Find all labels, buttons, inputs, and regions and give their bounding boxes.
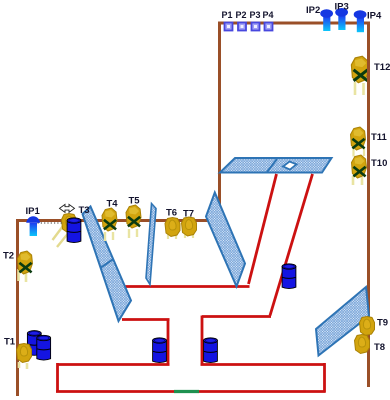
wire: red horizontal pipe y316 xyxy=(202,315,271,318)
valve behind tank T3 (diagonal legs) xyxy=(53,214,77,248)
svg-text:IP3: IP3 xyxy=(335,2,349,13)
label IP4 xyxy=(367,11,382,22)
valve T1 xyxy=(17,344,32,370)
wire: red vertical pipe x202 xyxy=(201,316,204,365)
label T9 xyxy=(377,318,388,329)
label T7 xyxy=(183,209,194,220)
svg-text:T2: T2 xyxy=(3,251,14,262)
valve T10 xyxy=(352,155,367,185)
wire: red bottom loop left edge xyxy=(56,363,59,393)
valve T2 xyxy=(18,251,33,282)
svg-text:T5: T5 xyxy=(129,196,141,207)
svg-text:T3: T3 xyxy=(79,205,90,216)
svg-text:T1: T1 xyxy=(4,337,16,348)
svg-text:P1: P1 xyxy=(222,10,233,20)
svg-text:IP1: IP1 xyxy=(26,206,41,217)
wire: red bottom loop top edge left xyxy=(57,363,170,366)
screen conveyor S1 (top, with diamond) xyxy=(220,158,332,173)
screen conveyor S2 (big left diagonal band) xyxy=(83,207,132,322)
label P3 xyxy=(250,10,261,20)
wire: red vertical pipe x168 xyxy=(167,319,170,365)
wire: brown left vertical pipe xyxy=(16,219,19,396)
wire: red horizontal pipe y286 xyxy=(124,285,250,288)
label P2 xyxy=(236,10,247,20)
wire: red bottom loop top edge right xyxy=(201,363,325,366)
svg-text:P3: P3 xyxy=(250,10,261,20)
wire: green flow segment on bottom pipe xyxy=(174,390,199,393)
wire: brown top header pipe xyxy=(220,22,369,25)
svg-text:T7: T7 xyxy=(183,209,194,220)
label T4 xyxy=(107,199,119,210)
label T5 xyxy=(129,196,141,207)
barrel B6 (on right diagonal) xyxy=(282,264,296,289)
screen conveyor S5 (bottom right band) xyxy=(316,287,369,356)
indicator P3 xyxy=(252,23,260,31)
svg-text:T4: T4 xyxy=(107,199,119,210)
barrel B4 (on bottom loop) xyxy=(153,338,167,363)
indicator P2 xyxy=(238,23,246,31)
label T6 xyxy=(166,208,177,219)
barrel pair left B2 xyxy=(27,331,41,356)
label T12 xyxy=(374,62,390,73)
label IP3 xyxy=(335,2,349,13)
push valve IP2 xyxy=(320,9,333,31)
svg-text:P2: P2 xyxy=(236,10,247,20)
indicator P4 xyxy=(265,23,273,31)
label IP1 xyxy=(26,206,41,217)
svg-text:T11: T11 xyxy=(371,132,388,143)
indicator P1 xyxy=(225,23,233,31)
valve T7 xyxy=(182,217,197,238)
wire: red diagonal pipe left (screen to tank line) xyxy=(249,174,277,284)
wire: brown right vertical pipe (over valves) xyxy=(367,50,370,190)
label T1 xyxy=(4,337,16,348)
label IP2 xyxy=(306,5,320,16)
wire: red horizontal pipe y319 xyxy=(122,318,170,321)
wire: brown left vertical of header (down to screen) xyxy=(218,22,221,221)
tank barrel T3 xyxy=(67,218,81,243)
label T11 xyxy=(371,132,388,143)
screen conveyor S4 (tall middle parallelogram) xyxy=(206,193,245,287)
label P1 xyxy=(222,10,233,20)
label T2 xyxy=(3,251,14,262)
svg-text:P4: P4 xyxy=(263,10,274,20)
wire: red bottom loop bottom edge xyxy=(56,390,326,393)
barrel pair left B3 xyxy=(37,335,51,360)
svg-text:T10: T10 xyxy=(371,158,387,169)
valve T12 xyxy=(351,56,368,95)
valve T5 xyxy=(126,205,141,238)
push valve IP1 xyxy=(26,216,40,236)
manual arrow symbol xyxy=(60,204,75,212)
dotted link IP1 to T3 xyxy=(38,222,65,224)
valve T8 xyxy=(355,335,370,354)
svg-text:IP2: IP2 xyxy=(306,5,320,16)
svg-text:T9: T9 xyxy=(377,318,388,329)
wire: brown right vertical pipe xyxy=(367,22,370,388)
valve T6 xyxy=(165,218,180,240)
svg-text:T6: T6 xyxy=(166,208,177,219)
svg-text:T12: T12 xyxy=(374,62,390,73)
label P4 xyxy=(263,10,274,20)
wire: red bottom loop right edge xyxy=(323,363,326,393)
svg-text:T8: T8 xyxy=(374,342,385,353)
valve T4 xyxy=(102,208,117,241)
label T8 xyxy=(374,342,385,353)
valve T11 xyxy=(351,127,366,157)
wire: red diagonal pipe right xyxy=(270,174,313,316)
label T3 xyxy=(79,205,90,216)
push valve IP4 xyxy=(354,10,367,32)
wire: brown left horizontal pipe xyxy=(16,219,213,222)
svg-text:IP4: IP4 xyxy=(367,11,382,22)
push valve IP3 xyxy=(335,8,348,30)
label T10 xyxy=(371,158,387,169)
valve T9 xyxy=(360,317,375,336)
barrel B5 (on bottom loop) xyxy=(204,338,218,363)
screen conveyor S3 (thin vertical band) xyxy=(146,204,156,285)
